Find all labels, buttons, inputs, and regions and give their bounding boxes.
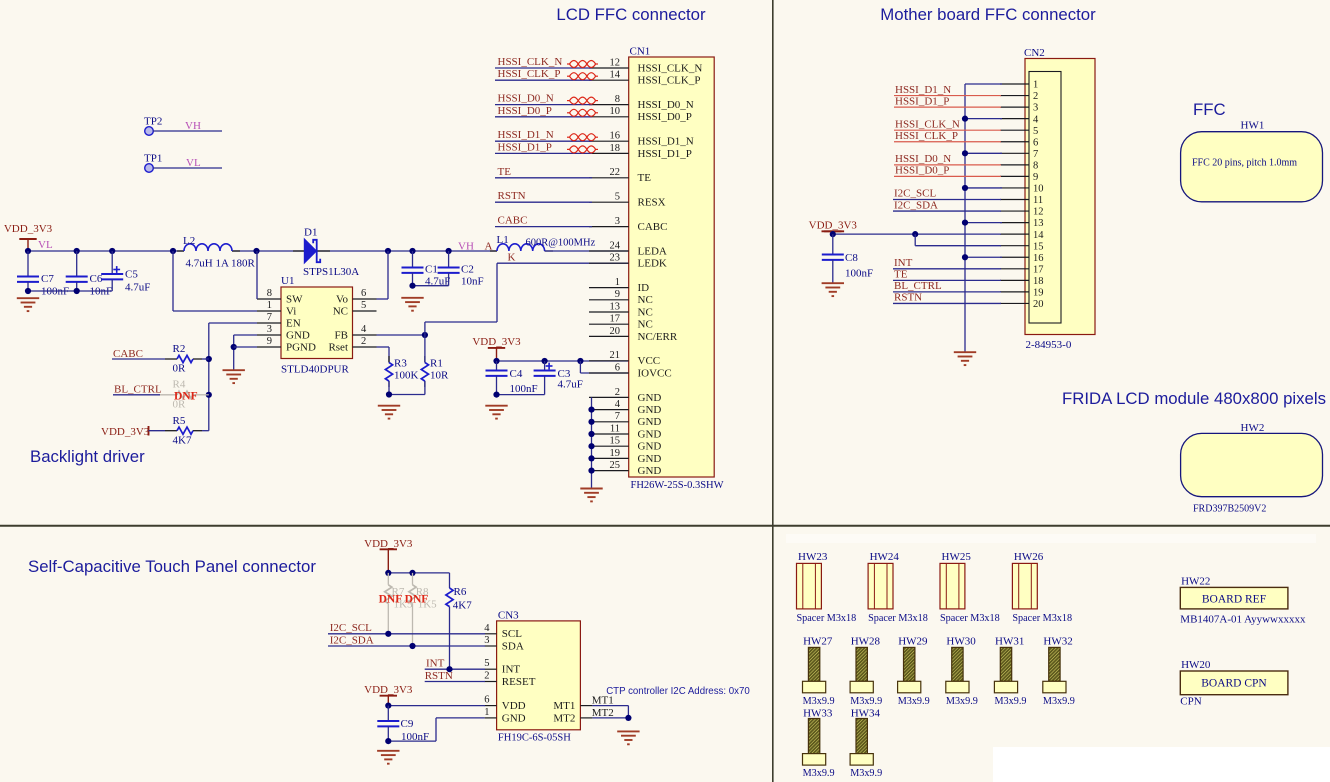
svg-text:HSSI_D1_N: HSSI_D1_N xyxy=(638,136,694,148)
svg-text:HSSI_D1_P: HSSI_D1_P xyxy=(638,148,692,160)
wire pin7 gnd xyxy=(965,152,1002,154)
pin 10 xyxy=(1000,187,1029,189)
pin 16 (HSSI_D1_N) xyxy=(589,140,629,142)
capacitor C4 xyxy=(486,361,508,395)
pin 22 (TE) xyxy=(589,177,629,179)
svg-text:CPN: CPN xyxy=(1180,696,1201,708)
wire VL rail xyxy=(28,250,184,252)
svg-text:HW29: HW29 xyxy=(898,636,928,648)
wire TE xyxy=(893,279,1001,281)
wire PGND pin xyxy=(234,346,257,348)
svg-text:L1: L1 xyxy=(497,234,509,246)
differential pair directive xyxy=(567,61,598,68)
wire R3 stub xyxy=(388,356,390,363)
svg-text:FRD397B2509V2: FRD397B2509V2 xyxy=(1193,504,1266,515)
svg-text:7: 7 xyxy=(1033,149,1038,160)
wire VDD pin 15 xyxy=(915,245,1001,247)
svg-text:10: 10 xyxy=(1033,184,1044,195)
svg-text:GND: GND xyxy=(638,392,662,404)
pin 7 (EN) xyxy=(257,322,281,324)
svg-text:1: 1 xyxy=(484,707,489,718)
capacitor C2 xyxy=(438,251,460,286)
svg-text:VDD_3V3: VDD_3V3 xyxy=(472,336,521,348)
svg-text:STLD40DPUR: STLD40DPUR xyxy=(281,364,350,376)
svg-text:4: 4 xyxy=(615,399,621,410)
pin (MT2) xyxy=(580,717,592,719)
svg-text:HW25: HW25 xyxy=(942,551,972,563)
section divider horizontal xyxy=(0,525,1330,527)
svg-text:HSSI_D1_P: HSSI_D1_P xyxy=(895,95,949,107)
wire Vi riser xyxy=(172,251,174,311)
pin 20 (NC/ERR) xyxy=(589,335,629,337)
svg-text:LCD FFC connector: LCD FFC connector xyxy=(556,5,706,24)
svg-text:21: 21 xyxy=(610,350,621,361)
connector CN1 FH26W-25S-0.3SHW xyxy=(629,57,715,477)
resistor R6 xyxy=(449,573,451,588)
node HSSI_D1_N xyxy=(495,140,592,142)
svg-text:5: 5 xyxy=(484,658,489,669)
pin 7 (GND) xyxy=(589,421,629,423)
wire IOVCC riser xyxy=(579,361,581,373)
svg-text:ID: ID xyxy=(638,282,650,294)
connector CN3 FH19C-6S-05SH xyxy=(497,621,581,730)
ground (CN1) xyxy=(580,489,602,502)
svg-text:3: 3 xyxy=(267,324,272,335)
pin 20 xyxy=(1000,302,1029,304)
wire pin1 xyxy=(965,83,1002,85)
svg-text:13: 13 xyxy=(610,301,621,312)
wire HSSI_CLK_P xyxy=(894,141,1001,143)
svg-text:RSTN: RSTN xyxy=(498,190,526,202)
svg-text:C8: C8 xyxy=(845,252,858,264)
svg-text:HSSI_D0_N: HSSI_D0_N xyxy=(498,93,554,105)
wire FB xyxy=(377,334,425,336)
wire I2C_SDA xyxy=(328,645,485,647)
svg-text:4.7uF: 4.7uF xyxy=(558,379,583,391)
pin 5 (RESX) xyxy=(589,201,629,203)
svg-text:VCC: VCC xyxy=(638,355,661,367)
svg-text:MB1407A-01 Ayywwxxxxx: MB1407A-01 Ayywwxxxxx xyxy=(1180,613,1306,625)
pin 1 (GND) xyxy=(485,717,497,719)
svg-text:DNF: DNF xyxy=(174,391,198,403)
wire Rset xyxy=(377,346,390,348)
svg-text:M3x9.9: M3x9.9 xyxy=(946,696,978,707)
node RSTN xyxy=(495,201,592,203)
svg-text:6: 6 xyxy=(1033,137,1038,148)
svg-text:17: 17 xyxy=(610,314,621,325)
wire R3 bottom xyxy=(388,381,390,394)
svg-text:HW24: HW24 xyxy=(870,551,900,563)
wire pin4 gnd xyxy=(965,118,1002,120)
capacitor C1 xyxy=(402,251,424,286)
svg-text:3: 3 xyxy=(484,635,489,646)
svg-text:HSSI_CLK_P: HSSI_CLK_P xyxy=(895,130,958,142)
inductor L1 ferrite bead xyxy=(497,244,545,251)
wire R2 stub xyxy=(193,358,202,360)
wire HSSI_D0_P xyxy=(894,175,1001,177)
svg-text:11: 11 xyxy=(1033,195,1043,206)
ground (C8) xyxy=(822,283,844,296)
wire R bottoms xyxy=(389,394,425,396)
pin 5 (NC) xyxy=(353,310,377,312)
pin 25 (GND) xyxy=(589,470,629,472)
svg-text:7: 7 xyxy=(615,411,620,422)
wire pin16 gnd xyxy=(965,256,1002,258)
svg-text:RSTN: RSTN xyxy=(425,670,453,682)
svg-text:2: 2 xyxy=(361,336,366,347)
pin 11 xyxy=(1000,199,1029,201)
resistor R4 (DNF) xyxy=(177,391,193,398)
wire HSSI_D0_N xyxy=(894,164,1001,166)
capacitor C7 xyxy=(17,251,39,291)
pin 8 (HSSI_D0_N) xyxy=(589,104,629,106)
svg-text:HW31: HW31 xyxy=(995,636,1024,648)
pin 1 (Vi) xyxy=(257,310,281,312)
svg-text:0R: 0R xyxy=(173,363,187,375)
svg-text:INT: INT xyxy=(426,658,445,670)
wire EN vertical xyxy=(208,323,210,431)
svg-text:TE: TE xyxy=(498,166,512,178)
svg-text:VH: VH xyxy=(185,120,201,132)
pin 23 (LEDK) xyxy=(589,262,629,264)
svg-text:HSSI_CLK_N: HSSI_CLK_N xyxy=(895,118,960,130)
svg-text:20: 20 xyxy=(1033,299,1044,310)
svg-text:FRIDA LCD module 480x800 pixel: FRIDA LCD module 480x800 pixels xyxy=(1062,389,1326,408)
pin 9 xyxy=(1000,175,1029,177)
svg-text:9: 9 xyxy=(615,289,620,300)
svg-text:NC: NC xyxy=(638,319,653,331)
svg-text:R6: R6 xyxy=(454,586,467,598)
wire HSSI_CLK_N xyxy=(894,129,1001,131)
svg-text:GND: GND xyxy=(638,416,662,428)
capacitor C8 xyxy=(822,234,844,283)
svg-text:3: 3 xyxy=(615,216,620,227)
svg-text:FFC 20 pins, pitch 1.0mm: FFC 20 pins, pitch 1.0mm xyxy=(1192,158,1297,169)
wire GND bus xyxy=(591,397,593,488)
svg-text:LEDK: LEDK xyxy=(638,258,667,270)
wire I2C_SCL xyxy=(328,633,485,635)
wire VDD to R5 xyxy=(149,430,166,432)
wire HSSI_D1_P xyxy=(894,106,1001,108)
svg-text:HW32: HW32 xyxy=(1043,636,1072,648)
svg-text:GND: GND xyxy=(638,428,662,440)
ground (VCC caps) xyxy=(485,406,507,419)
svg-text:13: 13 xyxy=(1033,218,1044,229)
svg-text:HW28: HW28 xyxy=(851,636,881,648)
svg-text:FFC: FFC xyxy=(1193,100,1226,119)
pin 5 (INT) xyxy=(485,668,497,670)
svg-text:HW33: HW33 xyxy=(803,707,833,719)
svg-text:I2C_SDA: I2C_SDA xyxy=(330,635,374,647)
svg-text:1: 1 xyxy=(615,277,620,288)
svg-text:VH: VH xyxy=(458,241,474,253)
wire I2C_SDA xyxy=(893,210,1001,212)
wire GND pin xyxy=(234,334,257,336)
resistor R1 xyxy=(421,363,428,382)
svg-text:TE: TE xyxy=(894,269,908,281)
wire GND pin 1 xyxy=(436,717,485,719)
svg-text:GND: GND xyxy=(286,329,310,341)
wire R2 to EN net xyxy=(202,358,209,360)
resistor R8 (DNF) xyxy=(412,573,414,585)
svg-text:DNF DNF: DNF DNF xyxy=(379,593,429,605)
wire R5 to EN net xyxy=(202,430,209,432)
svg-text:I2C_SDA: I2C_SDA xyxy=(894,199,938,211)
svg-text:6: 6 xyxy=(361,288,366,299)
svg-text:PGND: PGND xyxy=(286,341,316,353)
svg-text:2-84953-0: 2-84953-0 xyxy=(1026,339,1072,351)
pin 16 xyxy=(1000,256,1029,258)
wire (DNF) xyxy=(193,394,209,396)
pin 3 xyxy=(1000,106,1029,108)
svg-text:19: 19 xyxy=(1033,288,1044,299)
svg-text:HSSI_CLK_P: HSSI_CLK_P xyxy=(498,68,561,80)
svg-text:1: 1 xyxy=(267,300,272,311)
wire C4-C3 bottoms xyxy=(497,394,545,396)
svg-text:L2: L2 xyxy=(183,235,195,247)
ground (input caps) xyxy=(17,298,39,311)
node TE xyxy=(495,177,592,179)
svg-text:R3: R3 xyxy=(394,358,407,370)
svg-text:MT1: MT1 xyxy=(553,700,575,712)
pin 11 (GND) xyxy=(589,433,629,435)
wire VDD pin 6 xyxy=(388,705,485,707)
svg-text:SW: SW xyxy=(286,293,303,305)
pin 13 (NC) xyxy=(589,311,629,313)
wire MT2 xyxy=(592,717,628,719)
svg-text:HSSI_D0_N: HSSI_D0_N xyxy=(895,153,951,165)
ground (MT shield) xyxy=(617,731,639,744)
svg-text:INT: INT xyxy=(502,664,521,676)
svg-text:HW20: HW20 xyxy=(1181,659,1211,671)
svg-text:FH26W-25S-0.3SHW: FH26W-25S-0.3SHW xyxy=(631,480,724,491)
differential pair directive xyxy=(567,134,598,141)
svg-text:HSSI_CLK_N: HSSI_CLK_N xyxy=(498,56,563,68)
wire Vi xyxy=(173,310,257,312)
wire R1 stub xyxy=(424,381,426,387)
svg-text:8: 8 xyxy=(615,94,620,105)
pin 4 (SCL) xyxy=(485,633,497,635)
wire LEDK pin 23 xyxy=(497,262,629,264)
svg-text:SDA: SDA xyxy=(502,640,524,652)
svg-text:C1: C1 xyxy=(425,264,438,276)
svg-text:C4: C4 xyxy=(510,368,523,380)
svg-text:C2: C2 xyxy=(461,264,474,276)
wire R3 stub xyxy=(388,381,390,387)
pin 1 (ID) xyxy=(589,287,629,289)
svg-text:M3x9.9: M3x9.9 xyxy=(898,696,930,707)
svg-text:6: 6 xyxy=(484,695,489,706)
svg-text:C5: C5 xyxy=(125,269,138,281)
svg-text:600R@100MHz: 600R@100MHz xyxy=(526,238,596,249)
pin 17 xyxy=(1000,268,1029,270)
svg-text:HSSI_D0_P: HSSI_D0_P xyxy=(498,105,552,117)
svg-text:8: 8 xyxy=(267,288,272,299)
differential pair directive xyxy=(567,109,598,116)
svg-text:HW27: HW27 xyxy=(803,636,833,648)
node HSSI_CLK_P xyxy=(495,79,592,81)
svg-text:7: 7 xyxy=(267,312,272,323)
svg-text:HW26: HW26 xyxy=(1014,551,1044,563)
svg-text:VDD: VDD xyxy=(502,700,526,712)
svg-text:VDD_3V3: VDD_3V3 xyxy=(4,223,53,235)
pin 14 xyxy=(1000,233,1029,235)
node HSSI_CLK_N xyxy=(495,67,592,69)
svg-text:3: 3 xyxy=(1033,103,1038,114)
svg-text:VDD_3V3: VDD_3V3 xyxy=(364,684,413,696)
pin 8 xyxy=(1000,164,1029,166)
wire R1 bottom xyxy=(424,381,426,394)
svg-text:D1: D1 xyxy=(304,227,317,239)
ground (C9) xyxy=(377,751,399,764)
svg-text:Mother board FFC connector: Mother board FFC connector xyxy=(880,5,1096,24)
svg-text:16: 16 xyxy=(610,131,621,142)
pin 21 (VCC) xyxy=(589,360,629,362)
pin 8 (SW) xyxy=(257,298,281,300)
svg-text:K: K xyxy=(508,252,516,264)
svg-text:NC: NC xyxy=(333,305,348,317)
svg-text:CABC: CABC xyxy=(113,348,143,360)
svg-text:NC: NC xyxy=(638,306,653,318)
pin 4 (FB) xyxy=(353,334,377,336)
svg-text:HSSI_D1_N: HSSI_D1_N xyxy=(498,129,554,141)
pin 5 xyxy=(1000,129,1029,131)
svg-text:4K7: 4K7 xyxy=(173,435,192,447)
power VDD_3V3 (CN2) xyxy=(824,231,841,234)
svg-text:Self-Capacitive Touch Panel co: Self-Capacitive Touch Panel connector xyxy=(28,557,316,576)
svg-text:HW30: HW30 xyxy=(946,636,976,648)
test point TP2 xyxy=(145,127,154,136)
wire R7 bottom (DNF) xyxy=(387,603,389,633)
svg-text:C7: C7 xyxy=(41,273,54,285)
svg-text:I2C_SCL: I2C_SCL xyxy=(330,622,372,634)
pin 2 (GND) xyxy=(589,396,629,398)
wire Vo xyxy=(377,298,389,300)
pin 6 xyxy=(1000,141,1029,143)
wire (DNF) xyxy=(160,394,177,396)
svg-text:EN: EN xyxy=(286,317,301,329)
resistor R3 xyxy=(385,363,392,382)
pin (MT1) xyxy=(580,705,592,707)
svg-text:NC: NC xyxy=(638,294,653,306)
node HSSI_D1_P xyxy=(495,152,592,154)
svg-text:Spacer M3x18: Spacer M3x18 xyxy=(940,613,1000,624)
pin 15 xyxy=(1000,245,1029,247)
wire SW to rail xyxy=(256,251,258,299)
wire GND return xyxy=(388,740,436,742)
wire VDD pin 14 xyxy=(833,233,1001,235)
svg-text:4: 4 xyxy=(361,324,367,335)
wire BL_CTRL xyxy=(113,394,160,396)
svg-text:TE: TE xyxy=(638,172,652,184)
diode D1 STPS1L30A xyxy=(293,239,330,263)
ground (feedback divider) xyxy=(378,406,400,419)
svg-text:14: 14 xyxy=(1033,230,1044,241)
svg-text:R2: R2 xyxy=(173,343,186,355)
power VDD_3V3 (CTP) xyxy=(380,696,397,706)
svg-text:18: 18 xyxy=(610,143,621,154)
node HSSI_D0_P xyxy=(495,116,592,118)
svg-text:VDD_3V3: VDD_3V3 xyxy=(364,538,413,550)
capacitor C5 xyxy=(101,251,123,291)
svg-text:17: 17 xyxy=(1033,264,1044,275)
pin 3 (CABC) xyxy=(589,226,629,228)
svg-text:10: 10 xyxy=(610,106,621,117)
wire GND riser xyxy=(435,718,437,741)
wire R2 stub xyxy=(165,358,177,360)
svg-text:M3x9.9: M3x9.9 xyxy=(850,696,882,707)
wire C1-C2 bottoms xyxy=(413,285,449,287)
wire VL to TP1 xyxy=(153,167,222,169)
power VDD_3V3 (input rail) xyxy=(19,239,36,251)
svg-text:BOARD REF: BOARD REF xyxy=(1202,593,1266,605)
wire CABC xyxy=(112,358,165,360)
op-amp U1 STLD40DPUR (LED driver IC) xyxy=(281,287,353,359)
svg-text:BL_CTRL: BL_CTRL xyxy=(114,384,162,396)
pin 2 (RESET) xyxy=(485,681,497,683)
svg-text:100K: 100K xyxy=(394,370,419,382)
svg-text:20: 20 xyxy=(610,326,621,337)
pin 24 (LEDA) xyxy=(589,250,629,252)
svg-text:Vi: Vi xyxy=(286,305,296,317)
wire L2 stub xyxy=(232,250,240,252)
svg-text:FB: FB xyxy=(335,329,348,341)
svg-text:16: 16 xyxy=(1033,253,1044,264)
svg-text:Spacer M3x18: Spacer M3x18 xyxy=(1012,613,1072,624)
wire GND drop xyxy=(233,335,235,370)
wire L1 stub xyxy=(545,250,553,252)
svg-text:12: 12 xyxy=(1033,207,1044,218)
wire R5 stub xyxy=(193,430,202,432)
svg-text:HSSI_CLK_P: HSSI_CLK_P xyxy=(638,75,701,87)
resistor R2 xyxy=(177,355,193,362)
pin 6 (IOVCC) xyxy=(589,372,629,374)
wire MT1 xyxy=(592,705,628,707)
wire K drop xyxy=(496,263,498,322)
inductor L2 xyxy=(184,244,232,251)
svg-text:15: 15 xyxy=(610,436,621,447)
svg-text:19: 19 xyxy=(610,448,621,459)
svg-text:TP1: TP1 xyxy=(144,153,162,165)
svg-text:INT: INT xyxy=(894,257,913,269)
svg-text:M3x9.9: M3x9.9 xyxy=(803,696,835,707)
pin 1 xyxy=(1000,83,1029,85)
wire K to FB xyxy=(425,321,497,323)
svg-text:HW34: HW34 xyxy=(851,707,881,719)
svg-text:2: 2 xyxy=(615,387,620,398)
svg-text:Vo: Vo xyxy=(336,293,349,305)
svg-text:GND: GND xyxy=(638,453,662,465)
wire MT join xyxy=(627,706,629,718)
svg-text:R4: R4 xyxy=(173,379,186,391)
section divider vertical xyxy=(772,0,774,782)
wire CN2 ground bus xyxy=(964,84,966,352)
svg-text:10nF: 10nF xyxy=(461,275,484,287)
wire IOVCC pin 6 xyxy=(580,372,628,374)
ground (CN2) xyxy=(954,352,976,365)
pin 2 xyxy=(1000,95,1029,97)
wire I2C_SCL xyxy=(893,199,1001,201)
wire Rset drop xyxy=(388,347,390,363)
wire pin15 riser xyxy=(914,234,916,246)
svg-text:MT2: MT2 xyxy=(592,707,614,719)
pin 4 xyxy=(1000,118,1029,120)
svg-text:10R: 10R xyxy=(430,370,449,382)
svg-text:HW22: HW22 xyxy=(1181,576,1210,588)
wire BL_CTRL xyxy=(893,291,1001,293)
pin 4 (GND) xyxy=(589,409,629,411)
svg-text:100nF: 100nF xyxy=(845,268,873,280)
